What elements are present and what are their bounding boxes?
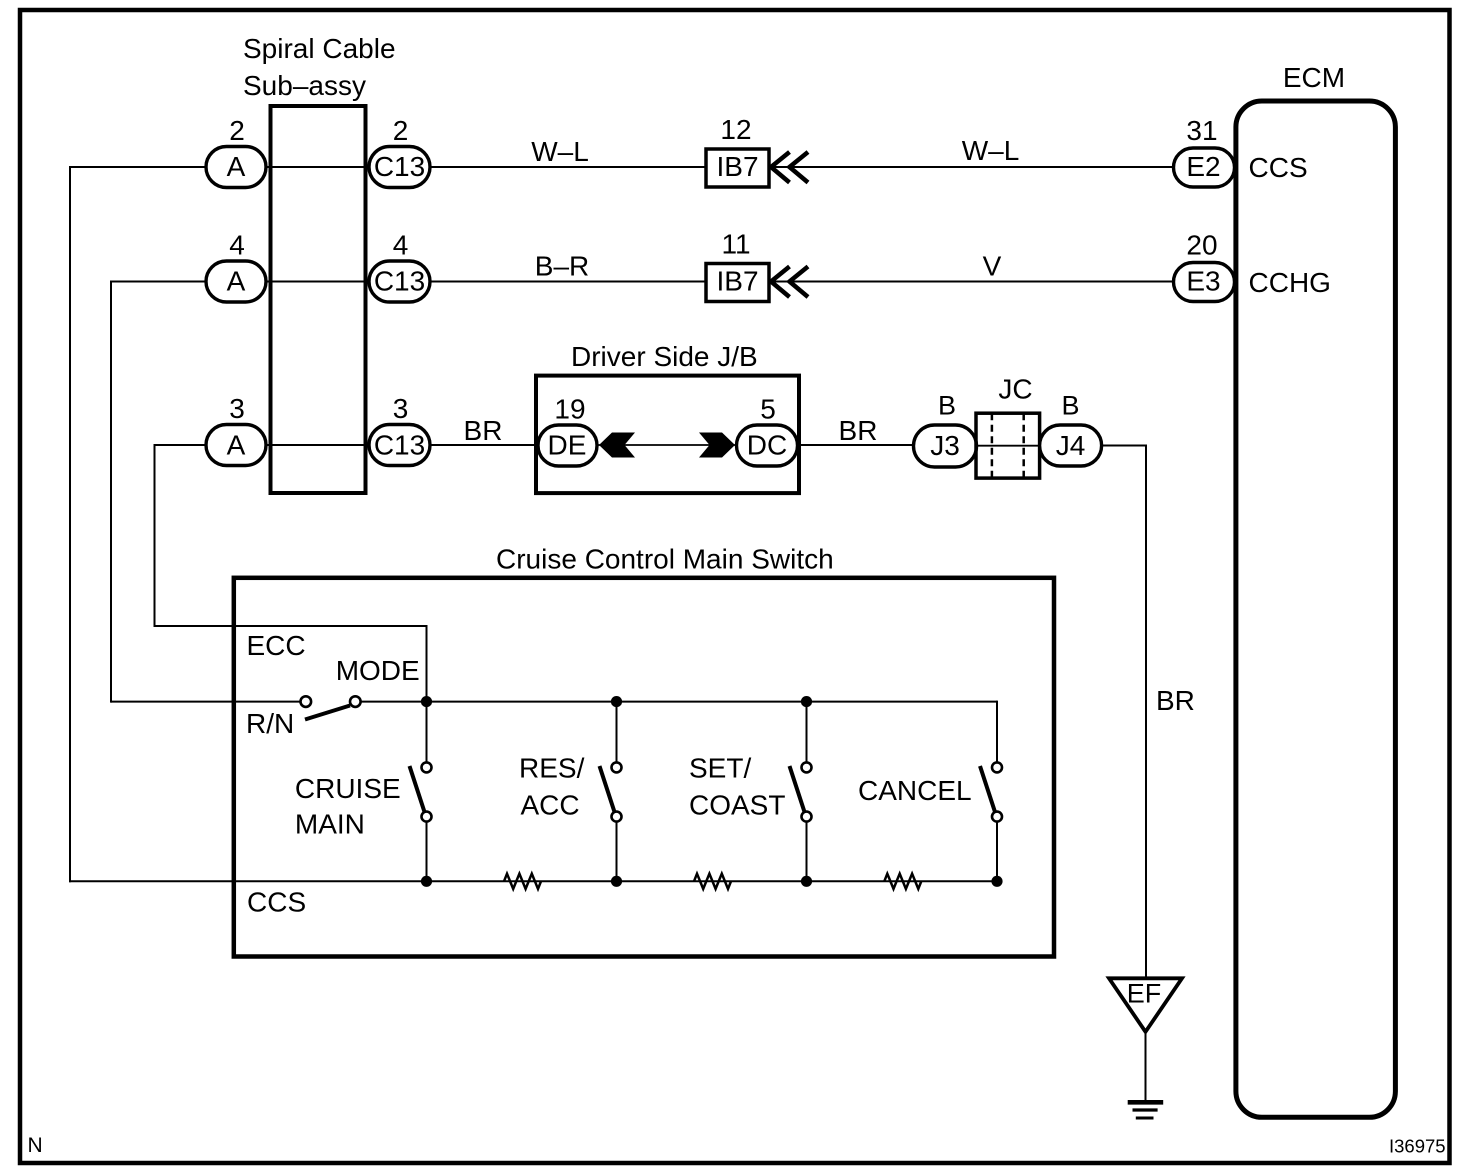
svg-text:2: 2 (393, 115, 409, 146)
svg-text:EF: EF (1127, 979, 1162, 1009)
svg-text:MODE: MODE (336, 655, 420, 686)
svg-text:2: 2 (229, 115, 245, 146)
svg-text:DC: DC (747, 430, 787, 461)
svg-text:A: A (227, 151, 246, 182)
svg-text:Cruise Control Main Switch: Cruise Control Main Switch (496, 544, 834, 575)
svg-text:4: 4 (393, 230, 409, 261)
svg-text:ACC: ACC (521, 790, 580, 821)
svg-text:A: A (227, 430, 246, 461)
svg-text:3: 3 (393, 393, 409, 424)
svg-text:J4: J4 (1056, 430, 1086, 461)
svg-text:SET/: SET/ (689, 753, 751, 784)
svg-text:E2: E2 (1186, 151, 1220, 182)
svg-text:CCS: CCS (1249, 152, 1308, 183)
svg-text:ECC: ECC (247, 630, 306, 661)
svg-text:R/N: R/N (246, 708, 294, 739)
svg-text:J3: J3 (930, 430, 960, 461)
svg-text:I36975: I36975 (1389, 1136, 1446, 1157)
svg-text:DE: DE (548, 430, 587, 461)
svg-text:BR: BR (839, 415, 878, 446)
svg-text:5: 5 (760, 394, 776, 425)
svg-text:CCS: CCS (247, 887, 306, 918)
svg-text:E3: E3 (1186, 266, 1220, 297)
svg-text:COAST: COAST (689, 790, 785, 821)
svg-text:CRUISE: CRUISE (295, 773, 401, 804)
svg-text:B: B (938, 391, 956, 421)
svg-text:Driver Side J/B: Driver Side J/B (571, 341, 758, 372)
svg-text:N: N (28, 1134, 43, 1157)
svg-text:RES/: RES/ (519, 753, 585, 784)
svg-text:B: B (1061, 391, 1079, 421)
svg-text:ECM: ECM (1283, 62, 1345, 93)
svg-text:Spiral Cable: Spiral Cable (243, 33, 396, 64)
svg-text:W–L: W–L (531, 136, 589, 167)
svg-text:12: 12 (720, 114, 751, 145)
svg-text:IB7: IB7 (716, 151, 758, 182)
svg-text:20: 20 (1186, 230, 1217, 261)
svg-text:MAIN: MAIN (295, 809, 365, 840)
svg-text:3: 3 (229, 393, 245, 424)
svg-text:V: V (983, 251, 1002, 282)
svg-text:B–R: B–R (535, 251, 589, 282)
svg-text:JC: JC (998, 374, 1032, 405)
svg-text:IB7: IB7 (716, 266, 758, 297)
svg-text:31: 31 (1186, 115, 1217, 146)
svg-text:W–L: W–L (962, 135, 1020, 166)
svg-text:BR: BR (1156, 685, 1195, 716)
svg-text:19: 19 (554, 394, 585, 425)
svg-text:C13: C13 (374, 151, 425, 182)
svg-text:Sub–assy: Sub–assy (243, 70, 366, 101)
svg-text:11: 11 (721, 229, 750, 260)
svg-text:C13: C13 (374, 430, 425, 461)
svg-text:CANCEL: CANCEL (858, 775, 972, 806)
svg-text:BR: BR (464, 415, 503, 446)
svg-text:CCHG: CCHG (1249, 267, 1331, 298)
svg-text:4: 4 (229, 230, 245, 261)
svg-text:C13: C13 (374, 266, 425, 297)
svg-text:A: A (227, 266, 246, 297)
